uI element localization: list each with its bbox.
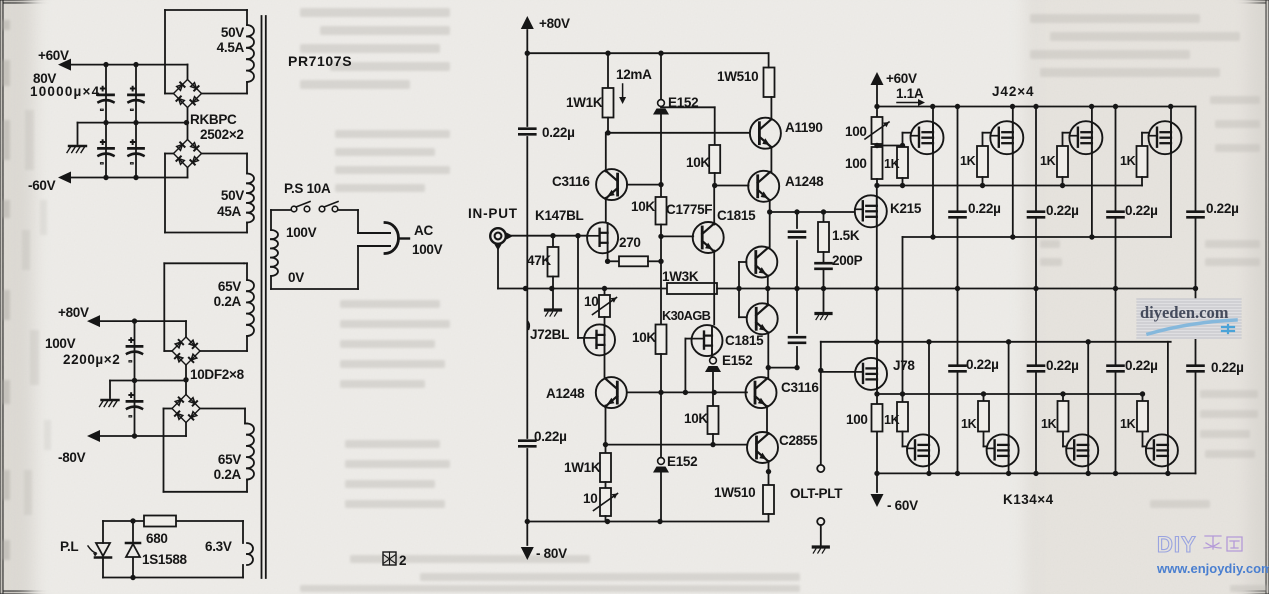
wire jack ground drop	[498, 244, 526, 289]
svg-text:1.5K: 1.5K	[832, 228, 860, 243]
resistor 100 upper	[872, 147, 883, 179]
svg-text:1.1A: 1.1A	[896, 86, 924, 101]
resistor 1K gate top no2	[977, 146, 988, 177]
wire bridge1 bottom to center tap	[187, 108, 189, 140]
wire 100 bottom	[876, 179, 878, 186]
wire +80V rail	[93, 320, 186, 322]
MOSFET K134 no4	[1146, 434, 1178, 466]
1W1K lower label	[564, 460, 601, 475]
svg-text:0.22µ: 0.22µ	[1125, 358, 1158, 373]
svg-text:- 60V: - 60V	[887, 498, 918, 513]
wire J78 drain	[876, 342, 878, 359]
capacitor 0.22u top no1	[950, 212, 966, 218]
winding value 4.5A label	[217, 40, 245, 55]
svg-text:PR7107S: PR7107S	[288, 53, 352, 69]
wire A1248-1 base	[715, 185, 749, 187]
wire source rail drop	[902, 237, 904, 394]
transformer winding 65V 0.2A upper	[164, 263, 254, 351]
J42x4 label	[992, 84, 1034, 99]
MOSFET J42 no4	[1149, 121, 1182, 154]
wire decouple col top no1	[957, 107, 959, 289]
transformer primary winding 100V	[271, 210, 358, 289]
svg-text:A1248: A1248	[546, 386, 585, 401]
MOSFET J42 no3	[1069, 121, 1102, 154]
capacitor 0.22u top no2	[1028, 212, 1044, 218]
resistor 100 lower	[872, 404, 883, 432]
wire cap column B	[135, 65, 137, 178]
wire +60V stem	[876, 85, 878, 107]
svg-text:- 80V: - 80V	[536, 546, 567, 561]
svg-text:0V: 0V	[288, 270, 304, 285]
wire 1W1K-trim	[605, 482, 607, 488]
junction gate node	[683, 390, 688, 395]
0.22u t1 label	[968, 201, 1001, 216]
MOSFET J42 no2	[990, 121, 1023, 154]
diode 1S1588	[126, 543, 140, 557]
resistor 10K no2	[656, 325, 667, 355]
wire A1190 emitter	[770, 147, 772, 173]
wire col661 a	[660, 185, 662, 197]
winding value 50V lower label	[221, 188, 244, 203]
wire 1.5K to 200P	[823, 252, 825, 262]
svg-text:OLT-PLT: OLT-PLT	[790, 486, 843, 501]
svg-text:65V: 65V	[218, 452, 241, 467]
12mA label	[616, 67, 652, 82]
trimmer 100	[865, 117, 889, 144]
wire C1775F base	[661, 235, 693, 237]
svg-text:1W510: 1W510	[714, 485, 755, 500]
svg-text:0.22µ: 0.22µ	[534, 429, 567, 444]
wire -80V amp rail	[527, 521, 768, 523]
transformer winding 65V 0.2A lower	[164, 409, 255, 492]
wire col661 c	[660, 236, 662, 324]
10 upper label	[584, 294, 598, 309]
capacitor 0.22u lower left	[519, 441, 535, 447]
junction C3116 base	[658, 182, 663, 187]
wire bridge4 bottom to -80V rail	[185, 423, 187, 437]
svg-text:0.22µ: 0.22µ	[1206, 201, 1239, 216]
junction J78 source node	[874, 391, 879, 396]
10K no1 label	[631, 199, 655, 214]
svg-text:+: +	[100, 84, 105, 94]
bridge rectifier D1 (RKBPC)	[174, 80, 202, 108]
wire input to gate	[508, 235, 588, 237]
0.22u b4 label	[1211, 360, 1244, 375]
MOSFET J42 no1	[911, 121, 944, 154]
wire 1K b1 top	[902, 394, 904, 402]
MOSFET K134 no2	[987, 434, 1019, 466]
pilot lamp box wiring	[103, 521, 243, 578]
junction K215 source out	[874, 286, 879, 345]
svg-text:12mA: 12mA	[616, 67, 652, 82]
svg-text:1K: 1K	[884, 157, 900, 171]
resistor 47K	[548, 247, 559, 277]
C2855 label	[779, 433, 818, 448]
resistor 1.5K	[818, 222, 829, 252]
transistor Q6 A1248 upper	[748, 171, 779, 202]
junction A1248l base dots	[658, 390, 717, 395]
svg-text:1W1K: 1W1K	[566, 95, 603, 110]
transformer T1 core	[262, 16, 266, 578]
E152-3 label	[667, 454, 697, 469]
junction K147 source	[605, 259, 610, 264]
100 lower label	[846, 412, 868, 427]
svg-text:1K: 1K	[884, 413, 900, 427]
A1190 label	[785, 120, 823, 135]
svg-text:-60V: -60V	[28, 178, 56, 193]
wire 1.5K top	[823, 212, 825, 222]
wire 1K2 bottom	[982, 177, 984, 186]
6.3V label	[205, 539, 232, 554]
wire K134-2 drain	[1008, 342, 1010, 436]
bridge label 10DF2x8 label	[190, 367, 245, 382]
2200u x2 label	[63, 352, 120, 367]
resistor 680	[144, 516, 176, 527]
wire K134-4 source	[1167, 465, 1169, 473]
wire decouple col bottom no4	[1195, 289, 1197, 474]
capacitor 0.22u bottom no4	[1188, 366, 1204, 372]
1W510 upper label	[717, 69, 758, 84]
transformer winding 50V 45A lower	[165, 154, 254, 233]
wire decouple col bottom no2	[1035, 289, 1037, 474]
1.5K label	[832, 228, 860, 243]
svg-text:2502×2: 2502×2	[200, 127, 244, 142]
svg-text:+: +	[130, 84, 135, 94]
svg-text:-: -	[100, 104, 104, 116]
junction input node dots	[523, 233, 581, 291]
svg-text:+60V: +60V	[886, 71, 917, 86]
wire J42-1 source	[932, 153, 934, 237]
wire bridge1 top to +60V rail	[187, 65, 189, 80]
1K b2 label	[961, 417, 977, 431]
1W1K upper label	[566, 95, 603, 110]
+80V arrow	[87, 315, 100, 327]
+60V label	[886, 71, 917, 86]
1W510 lower label	[714, 485, 755, 500]
resistor 1K gate top no3	[1057, 146, 1068, 177]
wire ground2 stem	[109, 381, 111, 399]
junction dots 80V caps	[132, 318, 137, 438]
AC label	[414, 223, 433, 238]
junction C2855 emitter	[766, 469, 771, 474]
wire cap column A	[105, 65, 107, 178]
wire trim top	[876, 107, 878, 118]
junction K134 gate rail dots	[900, 391, 1145, 396]
transformer winding 50V 4.5A upper	[165, 10, 254, 94]
J72BL label	[530, 327, 569, 342]
wire J42-3 drain	[1091, 107, 1093, 123]
wire A1248l base run	[627, 391, 747, 393]
bridge rectifier D3 (10DF2)	[172, 337, 200, 365]
wire decouple col top no4	[1195, 107, 1197, 289]
junction trim top	[602, 286, 607, 291]
svg-text:100: 100	[845, 124, 867, 139]
AC plug	[358, 223, 409, 254]
ground bar below 47K	[546, 289, 561, 317]
svg-text:-: -	[130, 104, 134, 116]
svg-text:+: +	[129, 390, 134, 400]
svg-text:+: +	[130, 137, 135, 147]
100V (80V sect) label	[45, 336, 76, 351]
junction bootstrap	[766, 365, 771, 370]
-60V label	[28, 178, 56, 193]
svg-text:100V: 100V	[286, 225, 317, 240]
C3116 no2 label	[781, 380, 819, 395]
wire K134-2 source	[1008, 465, 1010, 473]
10K no3 label	[686, 155, 710, 170]
wire J42 source rail	[903, 236, 1172, 238]
wire E152-1 column	[660, 53, 662, 184]
junction J42 source dots	[930, 234, 1094, 239]
junction 270 node	[658, 259, 663, 264]
1K g1 label	[884, 157, 900, 171]
resistor 1K gate top no4	[1137, 146, 1148, 177]
junction VAS base node	[736, 286, 741, 291]
svg-text:C2855: C2855	[779, 433, 818, 448]
100 trim label	[845, 124, 867, 139]
wire K215 drain	[876, 186, 878, 197]
svg-text:E152: E152	[722, 353, 752, 368]
input jack J_IN	[490, 228, 513, 250]
1K g4 label	[1120, 154, 1136, 168]
svg-text:C1815: C1815	[717, 208, 756, 223]
wire C3116 collector up	[605, 133, 607, 172]
100V primary label	[286, 225, 317, 240]
svg-text:0.22µ: 0.22µ	[968, 201, 1001, 216]
svg-text:50V: 50V	[221, 188, 244, 203]
test point E152-1	[653, 100, 669, 115]
0.22u b3 label	[1125, 358, 1158, 373]
wire K147 source down	[607, 253, 609, 262]
svg-text:C1815: C1815	[725, 333, 764, 348]
K147BL label	[535, 208, 584, 223]
bridge label RKBPC label	[190, 112, 237, 127]
+60V arrow	[58, 59, 71, 71]
svg-text:1K: 1K	[1041, 417, 1057, 431]
wire K134 gate jog x983.5	[984, 432, 987, 447]
wire 47K top	[552, 236, 554, 247]
junction J78 gate node	[818, 368, 823, 373]
wire 1W1K bottom to base wire	[607, 118, 609, 133]
OLT-PLT label	[790, 486, 843, 501]
test point E152-3	[653, 458, 669, 473]
svg-text:1S1588: 1S1588	[142, 552, 188, 567]
JFET Q2 K147BL	[587, 222, 618, 253]
wire K134-3 source	[1087, 465, 1089, 473]
47K label	[527, 253, 551, 268]
transistor Q8 C1815 lower	[747, 303, 778, 334]
junction K134 drain rail dots	[874, 339, 1091, 344]
junction +60V rail dots	[874, 104, 1173, 109]
transistor Q3 C1775F	[693, 222, 724, 253]
wire 1K b4 top	[1142, 394, 1144, 401]
-60V arrow	[58, 172, 71, 184]
wire center tap rail	[78, 122, 187, 124]
wire K134 gate jog x1063	[1063, 432, 1066, 447]
svg-text:-: -	[130, 157, 134, 169]
svg-text:10: 10	[584, 294, 598, 309]
svg-text:100V: 100V	[412, 242, 443, 257]
resistor 1K g1	[897, 147, 908, 178]
wire decouple col top no3	[1115, 107, 1117, 289]
junction trim node	[874, 143, 905, 148]
K30AGB label	[662, 308, 711, 323]
svg-text:10000µ×4: 10000µ×4	[30, 84, 100, 99]
wire K134 gate jog x1142.5	[1143, 432, 1146, 447]
capacitor C_C2 2200u	[127, 390, 142, 422]
svg-text:+: +	[100, 137, 105, 147]
svg-text:0.2A: 0.2A	[214, 467, 242, 482]
resistor 10K no3	[709, 145, 720, 173]
0.22u t4 label	[1206, 201, 1239, 216]
capacitor 0.22u bottom no1	[950, 366, 966, 372]
10K no2 label	[632, 330, 656, 345]
svg-text:C3116: C3116	[781, 380, 819, 395]
svg-text:K30AGB: K30AGB	[662, 308, 711, 323]
+80V amp label	[539, 16, 570, 31]
-80V label	[58, 450, 86, 465]
100V ac label	[412, 242, 443, 257]
+60V arrow	[871, 72, 884, 85]
wire J42-1 drain	[932, 107, 934, 123]
svg-text:1K: 1K	[1120, 154, 1136, 168]
C1815 no2 label	[725, 333, 764, 348]
winding value 0.2A upper label	[214, 294, 242, 309]
svg-text:-: -	[129, 355, 133, 367]
junction bridge1/bridge2 center tap	[184, 120, 189, 125]
wire K134 drain rail	[821, 341, 1171, 343]
svg-text:47K: 47K	[527, 253, 551, 268]
wire 270 to node	[648, 260, 661, 262]
svg-text:1K: 1K	[1040, 154, 1056, 168]
winding value 45A label	[217, 204, 241, 219]
wire J42-2 drain	[1012, 107, 1014, 123]
wire bridge2 bottom to -60V rail	[187, 168, 189, 178]
wire col661 b	[660, 225, 662, 237]
transistor Q11 C3116 lower	[746, 377, 777, 408]
trimmer 10 upper	[593, 295, 617, 317]
transistor Q5 A1190	[750, 118, 781, 149]
wire A1190 base run	[608, 132, 750, 134]
1K b1 label	[884, 413, 900, 427]
wire C3116 base right	[627, 184, 661, 186]
bridge rectifier D4 (10DF2)	[172, 395, 200, 423]
watermark DIY leyuan	[1156, 532, 1269, 576]
LED P.L	[88, 543, 111, 558]
wire C1775F emitter	[713, 251, 715, 325]
terminal OLT-PLT lower	[817, 518, 824, 545]
junction A1248l coll	[603, 442, 608, 447]
0.22u lower left label	[534, 429, 567, 444]
wire 1K b3 top	[1062, 394, 1064, 401]
svg-text:1K: 1K	[1120, 417, 1136, 431]
wire col661 e	[660, 392, 662, 521]
1W3K label	[662, 269, 699, 284]
junction 1W1K bottom	[605, 130, 610, 135]
wire tp2 down	[712, 370, 714, 392]
svg-text:680: 680	[146, 531, 168, 546]
wire decouple col top no2	[1035, 107, 1037, 289]
svg-text:0.22µ: 0.22µ	[1046, 358, 1079, 373]
svg-text:10K: 10K	[684, 411, 708, 426]
capacitor C_A2 10000u	[99, 137, 114, 169]
+60V label	[38, 48, 69, 63]
junction dots 60V caps	[103, 62, 138, 180]
svg-text:RKBPC: RKBPC	[190, 112, 237, 127]
wire K30AGB gate	[685, 339, 691, 393]
svg-text:10: 10	[583, 491, 597, 506]
J78 label	[893, 358, 915, 373]
wire output drop left	[820, 342, 822, 465]
wire A1248l col down	[605, 445, 607, 453]
1K b3 label	[1041, 417, 1057, 431]
wire +60V rail	[64, 64, 188, 66]
E152-2 label	[722, 353, 752, 368]
wire K134 gate rail	[877, 393, 1143, 395]
svg-text:P.S 10A: P.S 10A	[284, 181, 331, 196]
wire VAS mid	[767, 276, 769, 306]
wire VAS bottom emitter	[767, 332, 769, 377]
faint print bleed-through	[2, 20, 51, 560]
A1248 lower label	[546, 386, 585, 401]
resistor 1W1K lower	[600, 453, 611, 482]
wire J42 gate jog x1062.5	[1063, 133, 1070, 146]
winding value 65V upper label	[218, 279, 241, 294]
junction -80V rail dots	[525, 519, 663, 524]
wire C2855 emitter	[768, 461, 770, 485]
MOSFET K134 no3	[1066, 434, 1098, 466]
ground OLT-PLT	[813, 547, 828, 553]
svg-text:K134×4: K134×4	[1003, 492, 1054, 507]
resistor 1K gate bottom no3	[1058, 401, 1069, 432]
junction source rail dots	[874, 471, 1170, 476]
junction dots pilot	[130, 518, 135, 580]
junction A1248 base node	[712, 183, 717, 188]
680 label	[146, 531, 168, 546]
svg-text:-: -	[100, 157, 104, 169]
0.22u t2 label	[1046, 203, 1079, 218]
-60V arrow	[871, 494, 884, 507]
1K b4 label	[1120, 417, 1136, 431]
wire K134 source rail	[877, 472, 1196, 474]
wire +80V amp rail	[527, 52, 768, 54]
capacitor C_C1 2200u	[127, 335, 142, 367]
svg-text:www.enjoydiy.com: www.enjoydiy.com	[1156, 561, 1269, 576]
wire mid rail left	[526, 288, 668, 290]
svg-text:-: -	[129, 410, 133, 422]
junction decouple 1	[955, 286, 960, 291]
transistor Q1 C3116	[596, 169, 627, 200]
resistor 1W3K	[667, 283, 717, 294]
capacitor C_B1 10000u	[129, 84, 144, 116]
capacitor 0.22u bottom no3	[1108, 366, 1124, 372]
junction gate rail dots	[874, 183, 1065, 188]
0V label	[288, 270, 304, 285]
0.22u b1 label	[966, 357, 999, 372]
wire J42-4 drain	[1170, 107, 1172, 123]
resistor 1K b1	[897, 402, 908, 432]
wire trim2 bottom	[605, 516, 607, 522]
svg-text:100V: 100V	[45, 336, 76, 351]
transistor Q12 C2855	[747, 432, 778, 463]
wire -60V stem	[876, 473, 878, 492]
svg-text:diyeden.com: diyeden.com	[1140, 303, 1229, 322]
svg-text:270: 270	[619, 235, 641, 250]
svg-text:K215: K215	[890, 201, 922, 216]
wire trim node right	[877, 145, 903, 147]
wire A1248u emitter down	[769, 200, 771, 247]
ground G2	[100, 400, 119, 407]
